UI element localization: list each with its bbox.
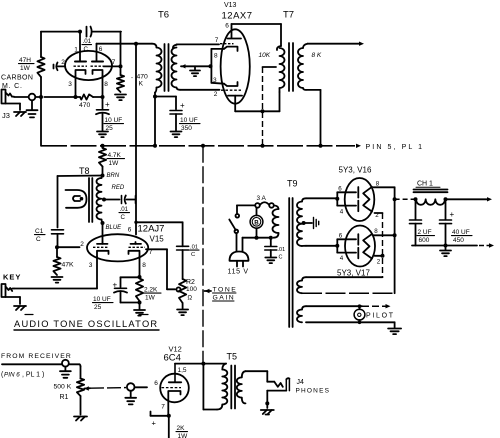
svg-text:5Y3, V17: 5Y3, V17 [337,269,370,278]
label 47H/1W [19,57,35,72]
svg-text:T6: T6 [158,10,169,21]
triode cathode right [93,70,103,76]
pin 3 [68,81,72,88]
label BLUE [106,225,123,231]
pot R1 wiper [84,386,90,390]
node rail x203 [201,144,205,148]
node meter bottom [255,236,259,240]
svg-text:T9: T9 [287,179,298,189]
wire cathode down [168,416,170,438]
svg-text:B: B [254,219,259,226]
svg-text:1W: 1W [20,65,31,72]
wire plug right to B line [243,238,272,252]
label V12 [169,345,182,354]
label 10K [259,52,271,59]
transformer T6 core [165,44,169,91]
resistor 2.2K [136,279,143,302]
choke CH1 core [414,190,448,193]
node BRN [101,174,105,178]
node tap rail [261,144,265,148]
ground HV center tap [304,218,319,229]
label CARBON M.C. [1,75,33,91]
svg-text:.01: .01 [120,206,129,213]
svg-text:7: 7 [112,59,116,66]
svg-text:GAIN: GAIN [213,295,236,302]
ground R2 [177,303,188,315]
capacitor .01 power [265,238,277,257]
pin 2 label [80,241,84,248]
triode V13b grid dashes [221,89,241,91]
node BLUE [101,221,105,225]
label 47K [62,262,75,269]
svg-text:6: 6 [128,227,132,234]
pin 6 V12 [154,380,158,387]
wire filter bottom [412,245,477,247]
node pin8 rail [393,233,397,237]
node top wire / plate pin1 [78,30,82,34]
wire mic tip [14,96,29,98]
choke CH1 coil [416,199,445,205]
label 2.2K/1W [144,287,162,302]
label 10UF/25 osc [93,296,114,311]
label BRN [107,173,120,179]
svg-text:40 UF: 40 UF [452,229,470,236]
ground 10UF/25 [97,132,108,138]
capacitor 10UF/25 electrolytic [96,97,110,131]
wire V16 plate tie [337,192,356,205]
svg-text:500 K: 500 K [54,384,72,391]
node cathode box [209,64,213,68]
label C1/C [35,228,46,243]
node choke out [444,197,448,201]
label AUDIO TONE OSCILLATOR [14,315,159,331]
wire V16 pin8 out [374,186,395,188]
node grid junction [55,245,59,249]
ground T6 center tap [190,66,200,76]
label 2K/1W [176,425,188,438]
svg-text:C: C [279,255,283,261]
svg-text:+: + [450,210,455,219]
wire main rail [41,97,355,146]
svg-text:25: 25 [106,125,114,132]
svg-text:47H: 47H [19,57,31,64]
svg-text:6: 6 [99,46,103,53]
wire left rail to mic line [40,77,42,97]
pin 7 label [149,249,153,256]
label CH1 [416,181,440,188]
tube V? input ellipse [65,51,112,80]
wire grid pin7 [104,65,121,67]
label V15 [150,235,165,244]
node B+ choke [393,197,397,201]
transformer T7 secondary [298,44,308,90]
wire V15 pin3 [96,257,98,289]
filament V16 [363,187,372,212]
wire cathode pin8 [102,76,104,97]
label 470K [131,74,148,88]
wire switch to plug [236,233,238,251]
grid cap pin2 [54,63,66,71]
triode V13b cathode [224,82,238,86]
node cap 01 power [269,236,273,240]
ground T5 secondary [261,403,274,414]
svg-text:.01: .01 [278,247,286,253]
pin 8 V17 [374,228,378,235]
svg-text:CH 1: CH 1 [417,181,433,188]
fuse 3A [255,202,274,207]
svg-text:1W: 1W [145,295,156,302]
wire V17 pin8 out [374,234,395,236]
wire B+ right rail [394,187,396,293]
filament V17 [363,234,372,259]
wire V12 plate to T5 [175,363,226,365]
capacitor 10UF/25 osc [113,277,140,302]
label T5 [227,352,238,362]
resistor R2 [179,279,186,303]
transformer T7 core [289,43,293,91]
pin 8 [104,81,108,88]
plate bars V17 [357,234,359,258]
svg-text:.01: .01 [83,38,92,45]
node rail osc [101,144,105,148]
svg-text:PILOT: PILOT [366,313,395,320]
label 5Y3 V16 [339,166,372,175]
triode V13b plate [228,96,242,104]
label 10UF/25 [104,117,124,132]
node pin7 junction [119,64,123,68]
pin 2 [61,59,65,66]
svg-text:600: 600 [419,237,430,244]
triode V13a plate [228,28,242,39]
pin 6 V17 [339,233,343,240]
wire tone-gain vertical [202,146,204,364]
label 40UF/450 [452,229,473,244]
meter B [250,215,263,228]
wire T6 bottom to cap [155,96,176,98]
wire V17 plate tie [337,239,356,252]
svg-text:1W: 1W [109,160,120,167]
tube V15 ellipse [87,234,148,261]
wire T6 sec bottom to grid [180,89,220,91]
resistor 47H mic grid [37,57,44,77]
capacitor 10UF/350 [170,97,185,131]
wire T5 sec top [246,371,268,382]
label KEY [3,273,21,282]
pin 3 box [213,77,217,84]
wire T7 tap [263,66,277,68]
svg-text:K: K [139,81,144,88]
node filter ground [444,244,448,248]
svg-text:2: 2 [61,59,65,66]
svg-text:5Y3, V16: 5Y3, V16 [339,166,372,175]
wire V12 cathode [167,401,171,418]
transformer T9 primary [273,205,279,237]
capacitor C1 [52,230,64,247]
svg-text:PIN 5, PL 1: PIN 5, PL 1 [366,144,425,151]
resistor 47K [53,247,60,275]
svg-text:R1: R1 [60,394,69,401]
node pin8 [138,275,142,279]
svg-text:KEY: KEY [3,273,21,282]
tube V13 ellipse [221,29,250,103]
svg-text:3 A: 3 A [257,195,267,202]
svg-text:10 UF: 10 UF [93,296,111,303]
pin 7 V12 [161,404,165,411]
svg-text:1: 1 [74,47,78,54]
triode V12 dashes [162,387,182,389]
triode V15a cathode [97,251,109,257]
wire mic to rail [35,96,41,98]
label 8K [312,52,322,59]
pin 2 V16 [375,212,379,219]
svg-text:BLUE: BLUE [106,225,123,231]
tube V17 ellipse [345,226,375,267]
transformer T6 primary [152,44,162,97]
resistor 470K [117,66,124,92]
label T9 [287,179,298,189]
node T6 rail [153,144,157,148]
node choke in [414,197,418,201]
wire T8 top loop [58,167,103,228]
ground mic connector [27,100,38,117]
svg-text:7: 7 [215,37,219,44]
wire fuse to switch [237,205,255,214]
svg-text:2: 2 [214,91,218,98]
wire V13 plate b to T7 bottom [235,92,279,111]
wire rail arrow PIN5 [356,144,361,148]
ground KEY [6,297,27,310]
svg-text:C: C [36,236,41,243]
transformer T9 6.3V winding [297,304,395,322]
wire V15 pin7 [146,249,175,289]
plate bars V16 [357,187,359,211]
svg-text:1,5: 1,5 [178,367,187,374]
svg-text:10 UF: 10 UF [105,117,123,124]
triode V15b plate bar [131,242,142,244]
transformer T5 primary [217,364,227,410]
svg-text:C: C [191,252,195,258]
wire mic line mid [44,96,102,98]
wire filter out dashed [479,243,494,247]
wire pin7 junction up [120,32,122,67]
pin 7 [112,59,116,66]
svg-text:25: 25 [94,304,102,311]
jack KEY [2,284,15,297]
label PILOT [366,313,395,320]
ground chassis J3 sleeve [6,104,27,117]
label .01/C power [278,247,286,261]
svg-text:3: 3 [213,77,217,84]
wire from receiver [2,364,81,366]
switch [229,214,239,233]
svg-text:T5: T5 [227,352,238,362]
label .01/C top cap [82,38,92,53]
transformer T8 primary [97,176,103,224]
wire choke out [446,197,493,201]
svg-text:4.7K: 4.7K [108,152,122,159]
ground R1 [74,396,87,421]
svg-text:47K: 47K [62,262,75,269]
wire KEY to pin3 [14,288,97,290]
wire top-left B+ wire [41,31,121,33]
label R2 [186,279,197,302]
wire plate to cap [134,221,182,224]
label T7 [283,10,294,21]
label pin 1,5 [178,367,187,374]
triode V13a grid dashes [220,43,234,45]
svg-text:+: + [105,100,110,109]
triode grid dashes left [74,65,88,67]
capacitor 40UF/450 [440,199,455,245]
label 2UF/600 [417,229,435,244]
capacitor .01 coupling top [87,27,92,37]
pin 2 label [214,91,218,98]
wire HV bottom to V17 [306,245,337,247]
svg-text:8: 8 [374,228,378,235]
label T6 [158,10,169,21]
node plate B+ [201,362,205,366]
connector receiver [60,360,71,378]
node T7 sec rail [319,144,323,148]
svg-text:FROM RECEIVER: FROM RECEIVER [1,353,72,360]
pot R2 wiper [176,287,180,291]
svg-text:PHONES: PHONES [296,388,331,395]
wire BLUE to grid [102,223,104,242]
wire plate1 lead [79,32,81,61]
triode V12 cathode [168,391,180,401]
transformer T8 slug [66,190,87,208]
svg-text:450: 450 [453,237,464,244]
label 115V [228,269,249,276]
svg-text:V13: V13 [224,2,237,9]
transformer T9 5V winding [297,277,395,293]
wire T6 sec top [177,43,220,45]
triode V15a grid bar [97,242,108,244]
triode V12 plate [169,364,181,383]
pin 1 [74,47,78,54]
wire plate2 to T6 wire [96,44,98,61]
svg-text:J3: J3 [2,111,10,120]
connector 6C4 grid [125,383,136,404]
triode V15a dashes [93,246,109,248]
ground 470K [115,95,126,101]
transformer T9 core [289,198,292,327]
svg-text:8 K: 8 K [312,52,322,59]
svg-text:+: + [180,101,185,110]
svg-text:7: 7 [161,404,165,411]
node T6 bottom [153,95,157,99]
svg-text:AUDIO TONE OSCILLATOR: AUDIO TONE OSCILLATOR [14,319,158,329]
svg-text:PIN 6: PIN 6 [4,372,20,379]
wire meter top [256,208,258,216]
wire grid 12AJ7 [57,246,80,248]
wire meter bottom [256,228,258,238]
ground filter [440,246,451,257]
svg-text:-: - [131,76,133,82]
pin 7 label [215,37,219,44]
label RED [112,185,125,191]
jack J4 phones [267,378,289,403]
capacitor .01 plate [177,222,189,279]
label 3A [257,195,267,202]
svg-text:, PL 1 ): , PL 1 ) [22,372,44,379]
jack J3 [2,90,15,104]
wire T7 tap to rail [262,67,264,146]
svg-text:470: 470 [79,102,91,109]
tube V12 circle [160,374,189,403]
svg-text:6C4: 6C4 [164,353,181,364]
svg-text:12AJ7: 12AJ7 [138,224,165,235]
pin 6 V16 [338,186,342,193]
label PIN 6 PL1 [1,372,44,379]
svg-text:3: 3 [68,81,72,88]
svg-text:1W: 1W [178,433,189,438]
pin 6 [99,46,103,53]
triode V13a cathode [224,47,238,51]
label .01/C T8 [119,206,130,221]
triode plate bar right [92,61,103,63]
svg-text:C: C [121,214,126,221]
pin 4 V16 [340,209,344,216]
wire V16 pin2 down [375,213,383,277]
pin 6 label [225,23,229,30]
pin 8 V16 [376,181,380,188]
capacitor 2UF/600 [410,199,422,245]
wire cathode pin3 [75,76,77,97]
tube V16 ellipse [345,178,375,221]
ground 2.2K [134,303,145,316]
pin 2 V17 [377,259,381,266]
label T8 [79,166,90,176]
svg-text:3: 3 [89,262,93,269]
node HV center tap [302,221,306,225]
svg-text:6: 6 [154,380,158,387]
svg-text:10 UF: 10 UF [180,117,198,124]
svg-text:12AX7: 12AX7 [222,11,253,22]
transformer T9 HV secondary [297,198,306,246]
capacitor .01 T8 tap [104,196,136,204]
svg-text:2: 2 [80,241,84,248]
ground .01 power [265,258,276,264]
pin 4 V17 [340,255,344,262]
label FROM RECEIVER [1,353,72,360]
wire B+ down T5 [203,364,217,410]
label PHONES [296,388,331,395]
transformer T5 core [231,366,235,409]
label 4.7K/1W [107,152,125,167]
svg-text:V15: V15 [150,235,165,244]
node pin3 mic line [74,95,78,99]
triode V15b cathode [129,251,140,257]
wire T7 sec top out [308,42,365,46]
transformer T7 primary [277,46,285,92]
svg-text:J4: J4 [297,379,305,386]
wire R1 wiper out [90,387,126,390]
label R1 [60,394,69,401]
label 5Y3 V17 [337,269,370,278]
wire cathode stub + [151,412,169,428]
wire T6 top wire [97,43,153,45]
label 470 [79,102,91,109]
label J3 [2,111,10,120]
svg-text:2K: 2K [177,425,186,432]
svg-text:TONE: TONE [213,287,238,294]
node mic-rail [39,95,43,99]
label .01/C plate [190,245,200,258]
ground 6.3V winding [388,322,401,334]
wire T7 sec bottom [306,90,321,146]
svg-text:R2: R2 [186,279,195,286]
